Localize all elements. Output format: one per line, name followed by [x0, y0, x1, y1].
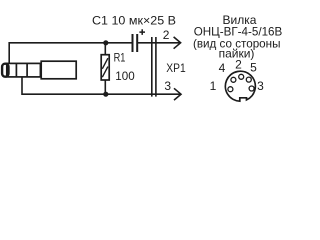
svg-text:R1: R1: [114, 51, 126, 65]
svg-text:3: 3: [257, 79, 264, 93]
connector XP1 double line symbol: [152, 37, 156, 97]
3.5mm jack plug XS: tip: [2, 64, 8, 77]
svg-text:100: 100: [115, 69, 135, 83]
svg-text:2: 2: [235, 58, 242, 72]
pin 3 arrow: [174, 88, 181, 100]
node junction dot top: [103, 40, 108, 45]
wire bottom rail from plug to pin 3 arrow: [21, 77, 180, 94]
wire resistor bottom lead: [104, 80, 106, 94]
DIN pin 5 contact: [246, 77, 251, 82]
DIN plug outline circle with key notch: [225, 71, 255, 101]
svg-text:XP1: XP1: [166, 61, 186, 75]
svg-text:С1 10 мк×25 В: С1 10 мк×25 В: [92, 13, 176, 27]
DIN pin 2 contact: [239, 74, 244, 79]
3.5mm jack plug XS: contact segments: [7, 63, 41, 77]
pin 2 arrow: [174, 37, 181, 49]
DIN pin 1 contact: [228, 87, 233, 92]
node junction dot bottom: [103, 92, 108, 97]
3.5mm jack plug XS: body: [41, 61, 76, 79]
svg-text:3: 3: [164, 79, 171, 93]
svg-text:4: 4: [219, 61, 226, 75]
wire resistor top lead: [104, 43, 106, 55]
svg-text:2: 2: [163, 28, 170, 42]
capacitor C1 polarity plus sign: [139, 29, 145, 35]
DIN pin 3 contact: [249, 86, 254, 91]
resistor R1 body with 0.125W marks: [101, 55, 109, 80]
svg-text:5: 5: [250, 61, 257, 75]
svg-text:1: 1: [210, 79, 217, 93]
DIN pin 4 contact: [231, 77, 236, 82]
capacitor C1 plates: [133, 34, 138, 52]
wire top rail from capacitor to pin 2 arrow: [137, 42, 179, 44]
wire top rail from plug to capacitor: [8, 43, 131, 64]
